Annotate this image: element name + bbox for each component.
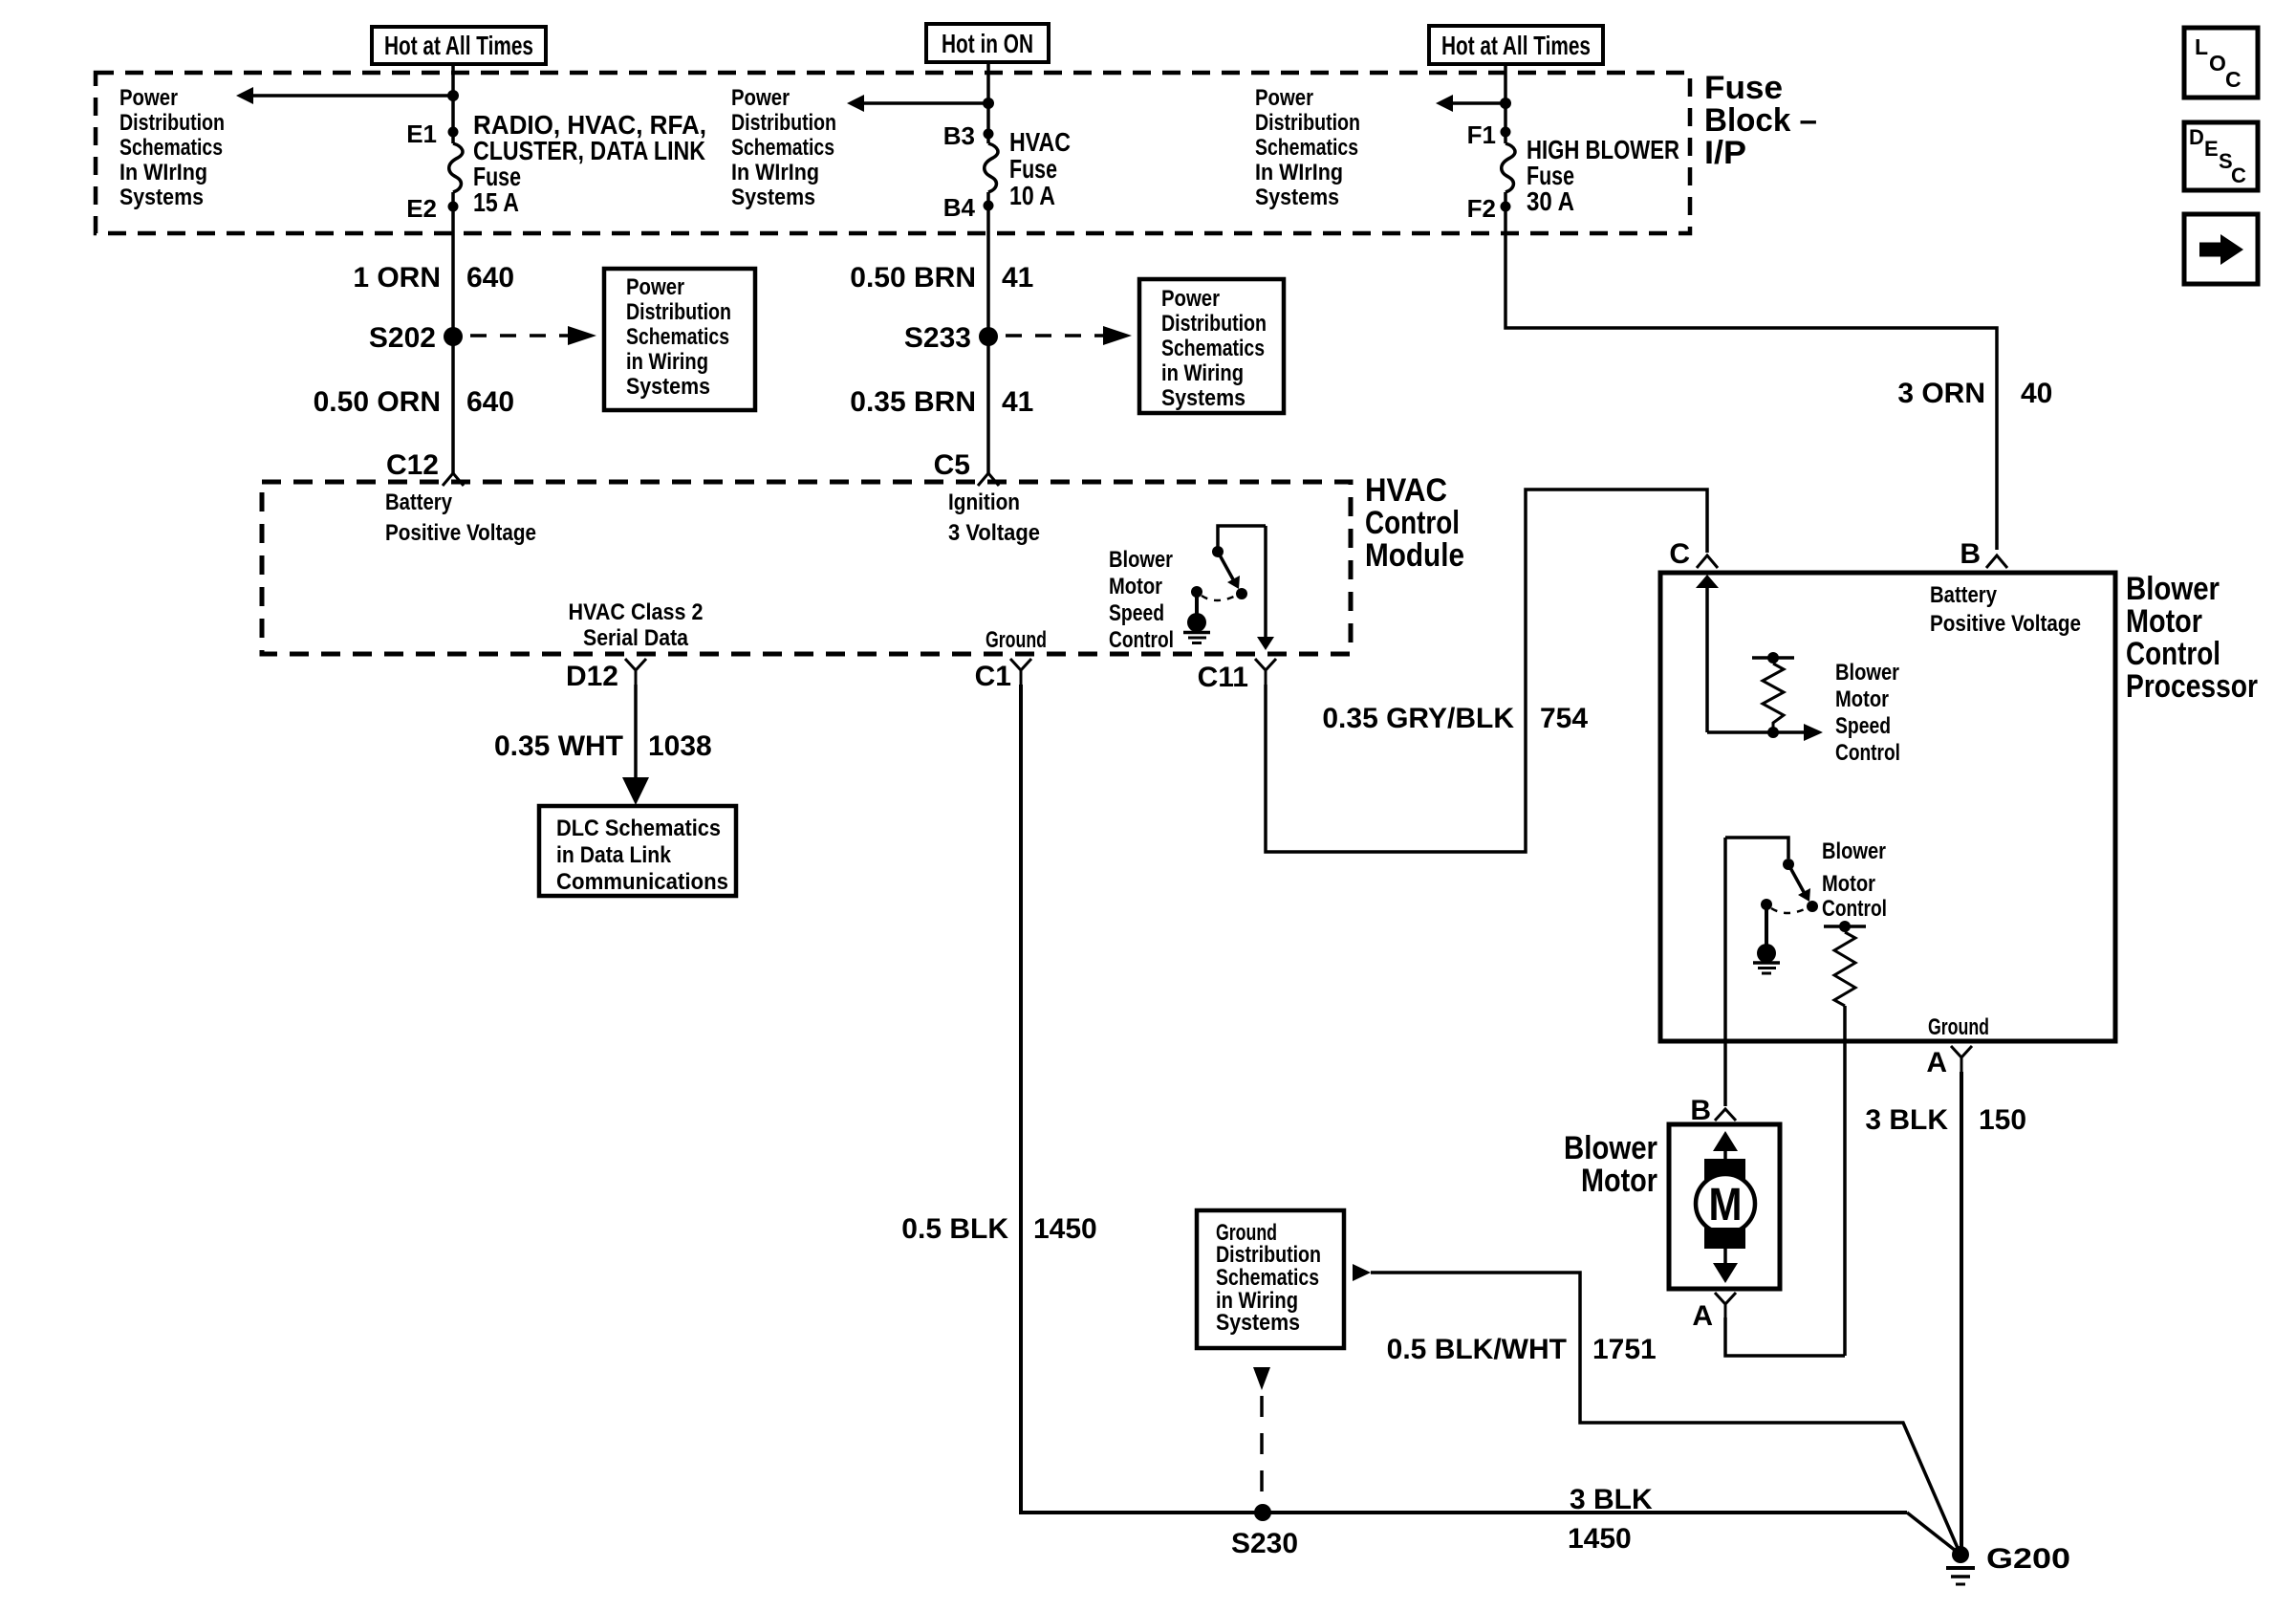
dashed arrow S202 to power distribution box — [470, 326, 596, 345]
blower motor control processor box — [1660, 573, 2115, 1041]
ground distribution schematics box — [1197, 1210, 1344, 1348]
svg-text:Schematics: Schematics — [731, 135, 834, 161]
svg-text:0.35 GRY/BLK: 0.35 GRY/BLK — [1322, 703, 1514, 734]
svg-text:Speed: Speed — [1109, 600, 1164, 626]
svg-text:L: L — [2195, 34, 2208, 59]
wire C1 to S230 — [1021, 685, 1907, 1513]
wire diagonal 3 BLK to G200 — [1907, 1513, 1960, 1555]
svg-text:Blower: Blower — [2126, 571, 2220, 607]
wire battery feed column 1 — [451, 64, 455, 143]
power distribution schematics box 1 — [604, 269, 755, 410]
svg-text:C1: C1 — [975, 661, 1011, 692]
power distribution note 3 — [1255, 85, 1360, 210]
DLC schematics box — [539, 806, 736, 896]
svg-text:1450: 1450 — [1568, 1523, 1632, 1555]
svg-text:In WIrIng: In WIrIng — [119, 160, 207, 185]
label Blower Motor Speed Control (module) — [1109, 547, 1174, 653]
splice S230 — [1254, 1504, 1271, 1521]
svg-text:Control: Control — [1822, 896, 1887, 922]
label HVAC Control Module — [1365, 472, 1464, 574]
junction dot column 2 — [983, 98, 994, 109]
svg-text:Motor: Motor — [2126, 603, 2202, 640]
svg-text:Systems: Systems — [731, 185, 815, 210]
wire switch to C11 with arrow — [1257, 526, 1274, 650]
svg-text:Control: Control — [1835, 740, 1900, 766]
wire ignition feed column 2 — [986, 62, 990, 143]
fuse HIGH BLOWER 30A — [1502, 143, 1515, 192]
svg-text:F2: F2 — [1467, 194, 1496, 223]
ground G200 — [1946, 1543, 2070, 1584]
svg-text:C: C — [2225, 67, 2242, 92]
arrow box — [2184, 214, 2258, 284]
svg-text:HVAC: HVAC — [1009, 127, 1071, 157]
svg-text:Blower: Blower — [1564, 1130, 1657, 1166]
fuse HVAC 10A — [985, 143, 998, 192]
desc box — [2184, 122, 2258, 190]
svg-text:B: B — [1960, 538, 1981, 570]
svg-text:Motor: Motor — [1822, 871, 1875, 897]
svg-text:15 A: 15 A — [473, 187, 519, 217]
node Battery Positive Voltage (processor) — [1930, 582, 2081, 637]
svg-text:Motor: Motor — [1835, 686, 1889, 712]
fuse block dashed box — [96, 73, 1690, 233]
svg-text:Schematics: Schematics — [1216, 1265, 1319, 1291]
power distribution schematics box 2 — [1139, 279, 1284, 413]
fuse RADIO/HVAC/RFA 15A — [449, 143, 463, 192]
svg-text:10 A: 10 A — [1009, 181, 1055, 210]
svg-text:F1: F1 — [1467, 120, 1496, 149]
pin E2 — [448, 202, 459, 212]
svg-text:D: D — [2189, 125, 2204, 149]
svg-text:Schematics: Schematics — [1255, 135, 1358, 161]
svg-text:in Wiring: in Wiring — [626, 349, 708, 375]
node Ignition 3 Voltage — [948, 490, 1040, 546]
svg-text:Blower: Blower — [1822, 838, 1886, 864]
svg-text:1450: 1450 — [1033, 1213, 1097, 1245]
node HVAC Class 2 Serial Data — [569, 599, 704, 651]
splice S202 — [444, 327, 463, 346]
svg-text:E2: E2 — [406, 194, 437, 223]
svg-text:Ground: Ground — [986, 627, 1047, 653]
svg-text:41: 41 — [1002, 262, 1033, 294]
dashed reference to S230 — [1253, 1367, 1270, 1504]
svg-text:Positive Voltage: Positive Voltage — [385, 520, 536, 546]
svg-text:Hot at All Times: Hot at All Times — [1441, 31, 1591, 60]
junction dot column 1 — [447, 90, 459, 101]
svg-text:Systems: Systems — [119, 185, 204, 210]
svg-text:Ground: Ground — [1928, 1014, 1989, 1040]
svg-text:O: O — [2209, 51, 2226, 76]
svg-text:C11: C11 — [1198, 662, 1248, 693]
svg-text:Schematics: Schematics — [119, 135, 223, 161]
svg-text:Blower: Blower — [1109, 547, 1173, 573]
node Battery Positive Voltage — [385, 490, 536, 546]
svg-text:Power: Power — [1161, 286, 1220, 312]
svg-text:754: 754 — [1540, 703, 1588, 734]
svg-text:S202: S202 — [369, 322, 436, 354]
svg-text:in Data Link: in Data Link — [556, 842, 672, 868]
svg-text:I/P: I/P — [1704, 135, 1746, 171]
svg-text:41: 41 — [1002, 386, 1033, 418]
svg-text:0.5 BLK/WHT: 0.5 BLK/WHT — [1387, 1334, 1567, 1365]
dashed arrow S233 to power distribution box — [1006, 326, 1132, 345]
svg-text:Control: Control — [2126, 636, 2220, 672]
svg-text:640: 640 — [466, 262, 514, 294]
svg-text:Hot in ON: Hot in ON — [942, 29, 1033, 58]
svg-text:3 Voltage: 3 Voltage — [948, 520, 1040, 546]
wire blower motor A to resistor line — [1725, 1317, 1845, 1356]
svg-text:E: E — [2204, 137, 2219, 161]
wire arrow to power distribution 2 — [847, 95, 988, 112]
wire F2 to processor pin B — [1505, 192, 1997, 550]
svg-text:HVAC: HVAC — [1365, 472, 1447, 509]
svg-text:Processor: Processor — [2126, 668, 2258, 705]
svg-text:C: C — [1669, 538, 1690, 570]
svg-text:Systems: Systems — [1216, 1310, 1300, 1336]
motor M symbol — [1696, 1131, 1755, 1283]
svg-text:3 ORN: 3 ORN — [1897, 378, 1985, 409]
svg-text:Communications: Communications — [556, 869, 728, 895]
svg-text:Module: Module — [1365, 537, 1464, 574]
label Blower Motor Control Processor — [2126, 571, 2258, 705]
svg-text:A: A — [1926, 1047, 1947, 1078]
svg-text:Distribution: Distribution — [626, 299, 731, 325]
svg-text:C: C — [2231, 163, 2246, 187]
svg-text:Systems: Systems — [1255, 185, 1339, 210]
label Fuse Block I/P — [1704, 70, 1817, 171]
internal arrow from pin C — [1696, 575, 1719, 732]
wire switch to blower motor pin B — [1723, 838, 1727, 1106]
pin F1 — [1501, 127, 1511, 138]
svg-text:3 BLK: 3 BLK — [1570, 1484, 1653, 1515]
wire B4 to C5 — [986, 192, 990, 473]
svg-text:DLC Schematics: DLC Schematics — [556, 816, 721, 841]
blower motor box — [1669, 1124, 1780, 1289]
svg-text:150: 150 — [1979, 1104, 2026, 1136]
pin F2 — [1501, 202, 1511, 212]
label Blower Motor — [1564, 1130, 1657, 1199]
svg-text:Motor: Motor — [1581, 1163, 1657, 1199]
svg-text:G200: G200 — [1986, 1543, 2070, 1575]
svg-text:Blower: Blower — [1835, 660, 1899, 686]
svg-text:Systems: Systems — [626, 374, 710, 400]
svg-text:Speed: Speed — [1835, 713, 1891, 739]
switch blower motor speed control — [1212, 526, 1266, 599]
wire high blower feed column 3 — [1504, 64, 1507, 143]
switch lever ground (module) — [1183, 586, 1236, 643]
HVAC control module dashed box — [262, 482, 1351, 654]
svg-text:Fuse: Fuse — [1704, 70, 1783, 106]
svg-text:Distribution: Distribution — [1255, 110, 1360, 136]
svg-text:Power: Power — [1255, 85, 1313, 111]
splice S233 — [979, 327, 998, 346]
pin B4 — [984, 201, 994, 211]
svg-text:Systems: Systems — [1161, 385, 1245, 411]
svg-text:S230: S230 — [1231, 1528, 1298, 1559]
svg-text:Battery: Battery — [385, 490, 453, 515]
svg-text:C5: C5 — [934, 449, 970, 481]
label Blower Motor Control (processor) — [1822, 838, 1887, 922]
svg-text:Schematics: Schematics — [1161, 336, 1265, 361]
svg-text:Distribution: Distribution — [119, 110, 225, 136]
wire E2 to C12 — [451, 192, 455, 473]
power distribution note 1 — [119, 85, 225, 210]
resistor blower motor speed control — [1707, 652, 1823, 741]
svg-text:B3: B3 — [943, 121, 975, 150]
svg-text:Positive Voltage: Positive Voltage — [1930, 611, 2081, 637]
svg-text:Fuse: Fuse — [1009, 154, 1057, 184]
junction dot column 3 — [1500, 98, 1511, 109]
svg-text:In WIrIng: In WIrIng — [1255, 160, 1343, 185]
svg-text:C12: C12 — [386, 449, 439, 481]
svg-text:Power: Power — [119, 85, 178, 111]
wire arrow to power distribution 1 — [236, 87, 453, 104]
svg-text:30 A: 30 A — [1527, 186, 1574, 216]
svg-text:3 BLK: 3 BLK — [1865, 1104, 1948, 1136]
svg-text:Power: Power — [626, 274, 684, 300]
wire ground distribution to G200 (0.5 BLK/WHT) — [1353, 1264, 1960, 1555]
svg-text:Power: Power — [731, 85, 790, 111]
wire C11 to processor pin C (0.35 GRY/BLK) — [1266, 490, 1707, 852]
loc box — [2184, 28, 2258, 98]
svg-text:M: M — [1709, 1180, 1743, 1230]
svg-text:640: 640 — [466, 386, 514, 418]
svg-text:Distribution: Distribution — [731, 110, 836, 136]
svg-text:Hot at All Times: Hot at All Times — [384, 31, 533, 60]
wire processor A to G200 — [1960, 1072, 1963, 1555]
svg-text:Motor: Motor — [1109, 574, 1162, 599]
svg-text:1038: 1038 — [648, 730, 712, 762]
pin B3 — [984, 129, 994, 140]
svg-text:0.35 BRN: 0.35 BRN — [850, 386, 976, 418]
svg-text:E1: E1 — [406, 120, 437, 148]
svg-text:In WIrIng: In WIrIng — [731, 160, 819, 185]
switch blower motor control (processor) — [1725, 838, 1818, 912]
svg-text:S233: S233 — [904, 322, 971, 354]
svg-text:Control: Control — [1109, 627, 1174, 653]
Hot in ON box — [926, 24, 1049, 62]
svg-text:A: A — [1692, 1300, 1713, 1332]
svg-text:0.35 WHT: 0.35 WHT — [494, 730, 623, 762]
wire arrow to power distribution 3 — [1436, 95, 1505, 112]
power distribution note 2 — [731, 85, 836, 210]
svg-text:HVAC Class 2: HVAC Class 2 — [569, 599, 704, 625]
switch lever ground (processor) — [1753, 899, 1807, 973]
svg-text:Battery: Battery — [1930, 582, 1998, 608]
svg-text:Serial Data: Serial Data — [583, 625, 689, 651]
label Blower Motor Speed Control (processor) — [1835, 660, 1900, 766]
svg-text:in Wiring: in Wiring — [1161, 360, 1244, 386]
svg-text:Schematics: Schematics — [626, 324, 729, 350]
pin E1 — [448, 127, 459, 138]
svg-text:Block –: Block – — [1704, 102, 1817, 139]
Hot at All Times box 1 — [372, 27, 546, 64]
svg-text:0.50 BRN: 0.50 BRN — [850, 262, 976, 294]
wire D12 to DLC with arrow — [622, 685, 649, 805]
svg-text:Ignition: Ignition — [948, 490, 1020, 515]
svg-text:0.5 BLK: 0.5 BLK — [901, 1213, 1008, 1245]
svg-text:D12: D12 — [566, 661, 618, 692]
svg-text:Distribution: Distribution — [1161, 311, 1267, 337]
svg-text:Control: Control — [1365, 505, 1460, 541]
svg-text:40: 40 — [2021, 378, 2052, 409]
resistor blower motor control output — [1824, 921, 1866, 1356]
svg-text:1751: 1751 — [1592, 1334, 1657, 1365]
Hot at All Times box 2 — [1429, 26, 1603, 64]
svg-text:0.50 ORN: 0.50 ORN — [314, 386, 441, 418]
svg-text:B4: B4 — [943, 193, 976, 222]
svg-text:B: B — [1690, 1095, 1711, 1126]
svg-text:Distribution: Distribution — [1216, 1242, 1321, 1268]
svg-text:1 ORN: 1 ORN — [353, 262, 441, 294]
